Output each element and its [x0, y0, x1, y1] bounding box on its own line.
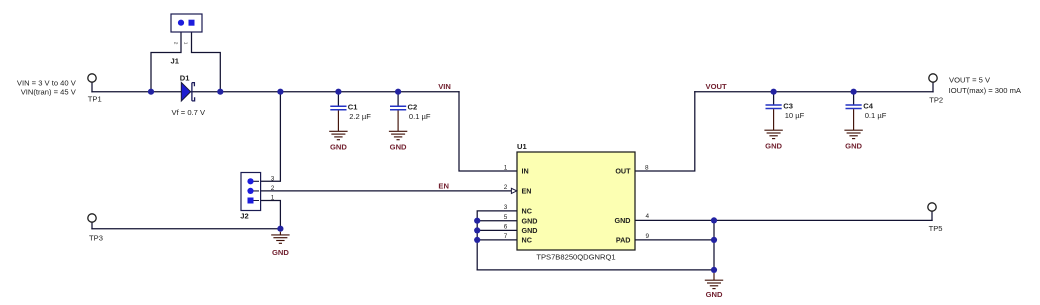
svg-text:GND: GND: [845, 141, 862, 150]
op-amp U1 body (regulator TPS7B8250): [517, 152, 635, 250]
wire VOUT rail to TP2: [695, 91, 933, 93]
connector J1: [171, 14, 202, 32]
wire C1 top stub: [337, 92, 339, 106]
svg-text:Vf = 0.7 V: Vf = 0.7 V: [172, 108, 206, 117]
svg-text:5: 5: [504, 214, 508, 221]
svg-text:1: 1: [271, 195, 275, 202]
wire bottom GND bus: [477, 269, 714, 271]
svg-text:TP3: TP3: [89, 233, 103, 242]
wire TP5 stub: [931, 211, 933, 220]
wire J1 pin2 branch (right): [192, 24, 221, 92]
svg-text:VIN(tran) = 45 V: VIN(tran) = 45 V: [21, 87, 77, 96]
wire TP1 stub: [91, 82, 93, 91]
svg-text:2: 2: [504, 184, 508, 191]
junction VOUT rail / C3: [771, 89, 777, 95]
ground symbol below C1: [329, 131, 347, 139]
wire J2 pin1 down to ground junction: [252, 201, 280, 229]
svg-text:2.2 µF: 2.2 µF: [349, 112, 371, 121]
svg-text:4: 4: [646, 213, 650, 220]
ground symbol at J2/TP3 junction: [271, 232, 289, 244]
junction VIN rail / J2 pin3 branch: [277, 89, 283, 95]
svg-text:GND: GND: [330, 143, 347, 152]
wire VIN rail corner down to U1 pin 1: [459, 92, 517, 171]
svg-text:3: 3: [504, 204, 508, 211]
wire U1 pin9 PAD stub: [635, 239, 714, 241]
junction pin9 wire / right GND vertical: [711, 237, 717, 243]
svg-text:0.1 µF: 0.1 µF: [409, 112, 431, 121]
wire J1 pin1 branch (left): [151, 24, 181, 92]
svg-text:EN: EN: [522, 187, 532, 196]
junction VIN rail / J1 right / D1 cathode: [217, 89, 223, 95]
svg-text:GND: GND: [522, 226, 538, 235]
wire U1 pin5 stub: [477, 220, 517, 222]
svg-text:GND: GND: [390, 143, 407, 152]
wire TP2 stub: [932, 82, 934, 91]
wire U1 OUT pin8 up to VOUT rail: [635, 92, 695, 171]
svg-text:7: 7: [504, 233, 508, 240]
junction VIN rail / C2: [395, 89, 401, 95]
U1 pin 2 EN input triangle: [511, 188, 516, 193]
svg-text:TP2: TP2: [929, 96, 943, 105]
junction left GND bus / pin6: [474, 227, 480, 233]
junction left GND bus / pin5: [474, 218, 480, 224]
ground symbol below U1 PAD bus: [705, 273, 723, 289]
wire U1 pin7 stub: [477, 239, 517, 241]
junction VIN rail / C1: [335, 89, 341, 95]
svg-text:GND: GND: [615, 216, 631, 225]
svg-text:IOUT(max) = 300 mA: IOUT(max) = 300 mA: [949, 86, 1022, 95]
wire U1 pin6 stub: [477, 229, 517, 231]
wire TP3 stub: [91, 222, 93, 229]
svg-text:GND: GND: [522, 216, 538, 225]
svg-text:GND: GND: [765, 141, 782, 150]
wire EN net J2 pin2 to U1 pin 2: [252, 190, 512, 192]
svg-text:GND: GND: [706, 290, 723, 299]
capacitor C3: [766, 105, 782, 130]
connector J2: [241, 173, 261, 211]
svg-text:GND: GND: [272, 248, 289, 257]
svg-text:C2: C2: [408, 103, 418, 112]
svg-text:TP1: TP1: [88, 95, 102, 104]
svg-text:1: 1: [182, 42, 188, 45]
wire C2 top stub: [397, 92, 399, 106]
svg-text:TPS7B8250QDGNRQ1: TPS7B8250QDGNRQ1: [536, 252, 615, 261]
wire U1 pin3 stub and left GND bus vertical: [477, 211, 517, 270]
junction VIN rail / J1 left / D1 anode: [148, 89, 154, 95]
wire right GND vertical pin4-pin9-bus: [713, 220, 715, 270]
svg-text:10 µF: 10 µF: [785, 111, 805, 120]
junction left GND bus / pin7: [474, 237, 480, 243]
junction bottom GND bus / GND symbol: [711, 267, 717, 273]
svg-text:C1: C1: [348, 103, 358, 112]
svg-text:VIN = 3 V to 40 V: VIN = 3 V to 40 V: [17, 78, 77, 87]
svg-text:J2: J2: [240, 211, 248, 220]
svg-text:NC: NC: [522, 207, 532, 216]
wire J2 pin3 to VIN rail: [252, 92, 280, 182]
capacitor C4: [846, 105, 862, 130]
wire C4 top stub: [853, 92, 855, 105]
wire TP3 to ground junction: [92, 228, 280, 230]
junction TP3 / J2 pin1 / GND symbol: [277, 226, 283, 232]
test point TP2: [929, 74, 937, 82]
ground symbol below C2: [389, 131, 407, 139]
svg-text:D1: D1: [180, 73, 190, 82]
svg-text:2: 2: [271, 185, 275, 192]
svg-text:VOUT = 5 V: VOUT = 5 V: [949, 76, 991, 85]
svg-text:PAD: PAD: [616, 236, 631, 245]
svg-text:3: 3: [271, 175, 275, 182]
capacitor C1: [330, 106, 346, 131]
svg-text:VIN: VIN: [438, 82, 451, 91]
svg-text:NC: NC: [522, 236, 532, 245]
ground symbol below C4: [844, 130, 862, 138]
test point TP3: [88, 214, 96, 222]
svg-text:9: 9: [646, 233, 650, 240]
svg-text:EN: EN: [438, 181, 449, 190]
svg-text:IN: IN: [522, 167, 529, 176]
svg-text:C3: C3: [783, 101, 793, 110]
svg-text:TP5: TP5: [929, 224, 943, 233]
test point TP5: [928, 203, 936, 211]
svg-text:VOUT: VOUT: [706, 82, 727, 91]
svg-text:U1: U1: [517, 142, 527, 151]
ground symbol below C3: [764, 130, 782, 138]
wire U1 pin4 GND to TP5: [635, 219, 932, 221]
diode D1: [181, 83, 194, 102]
capacitor C2: [390, 106, 406, 131]
svg-text:OUT: OUT: [615, 167, 631, 176]
svg-text:6: 6: [504, 224, 508, 231]
svg-text:1: 1: [504, 164, 508, 171]
svg-text:J1: J1: [171, 57, 180, 66]
wire VIN rail from TP1 to corner: [92, 91, 459, 93]
svg-text:C4: C4: [863, 101, 873, 110]
svg-text:8: 8: [645, 164, 649, 171]
svg-text:2: 2: [173, 42, 179, 45]
wire C3 top stub: [773, 92, 775, 105]
junction pin4 wire / right GND vertical: [711, 217, 717, 223]
junction VOUT rail / C4: [851, 89, 857, 95]
svg-text:0.1 µF: 0.1 µF: [865, 111, 887, 120]
test point TP1: [88, 74, 96, 82]
